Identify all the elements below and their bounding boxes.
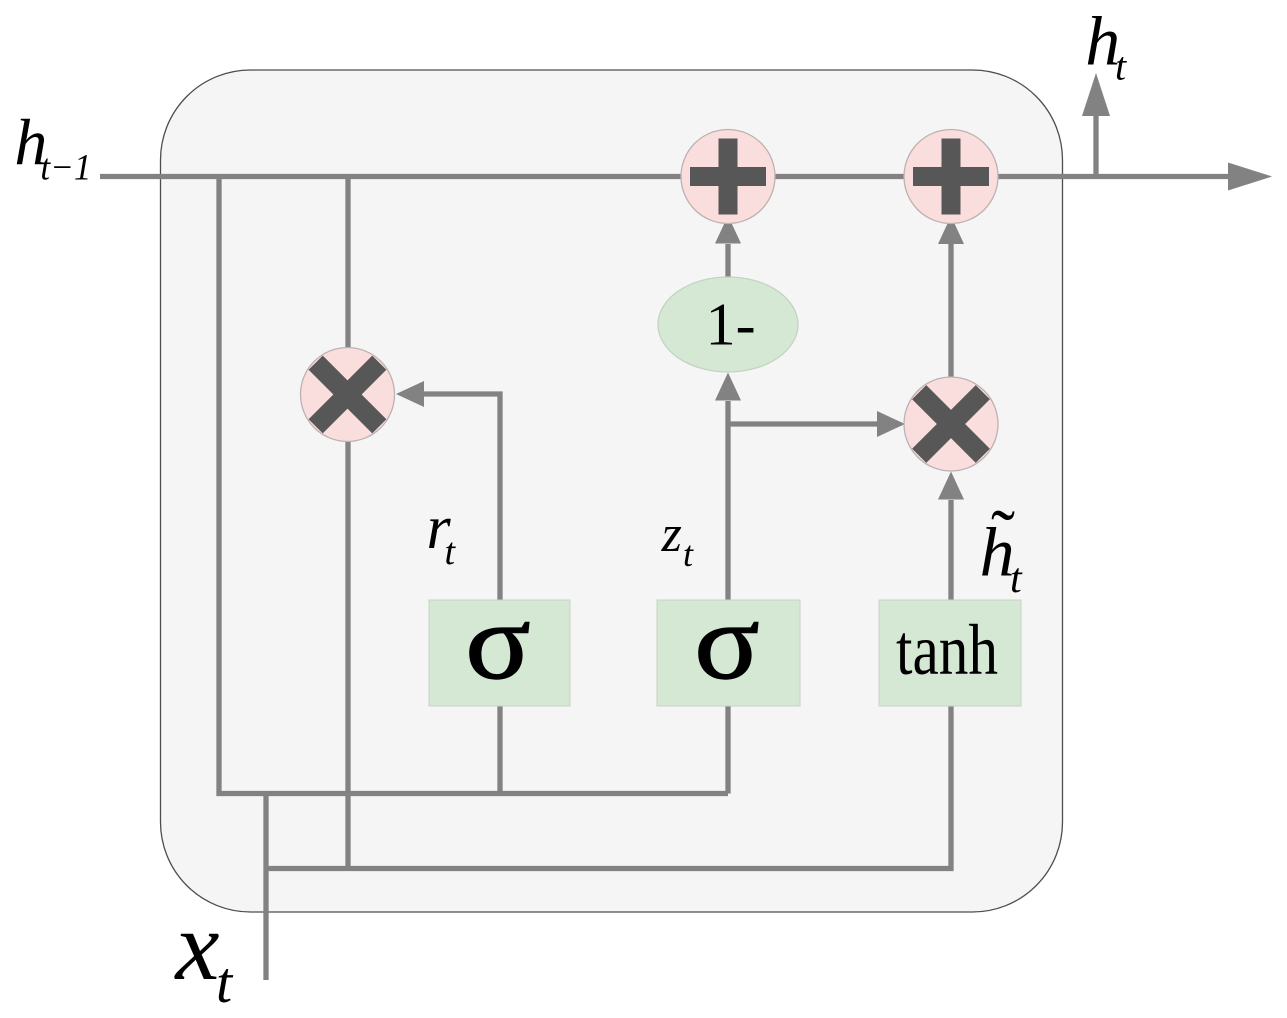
arrowhead h(t) up <box>1082 73 1110 116</box>
GRU cell body <box>161 70 1063 912</box>
times node 1 (multiply, left) <box>253 301 441 489</box>
arrowhead into plus2 <box>938 216 964 244</box>
wire z(t) branch to times2 <box>728 421 877 426</box>
arrowhead z branch into times2 <box>877 411 905 437</box>
sigma box 1 (reset gate) <box>429 582 570 706</box>
wire sigma2 bottom input <box>725 706 730 794</box>
arrowhead r(t) into times1 <box>396 381 424 407</box>
tanh box (candidate activation) <box>879 600 1021 706</box>
wire z(t) from sigma2 top to 1-minus ellipse <box>725 401 730 600</box>
svg-text:˜: ˜ <box>991 495 1015 575</box>
plus node 1 (add, left) <box>681 130 775 224</box>
svg-text:tanh: tanh <box>896 610 998 690</box>
arrowhead into plus1 <box>715 216 741 244</box>
plus node 2 (add, right) <box>904 130 998 224</box>
1-minus ellipse <box>658 277 798 372</box>
arrowhead z(t) into ellipse <box>715 373 741 401</box>
svg-text:σ: σ <box>465 582 530 702</box>
wire h(t-1) main horizontal line <box>100 174 1228 179</box>
wire times2 output to plus2 <box>948 244 953 377</box>
wire r(t) from sigma1 top to times1 <box>424 394 500 600</box>
svg-text:σ: σ <box>694 582 759 702</box>
sigma box 2 (update gate) <box>657 582 800 706</box>
wire tanh output to times2 <box>948 500 953 600</box>
svg-text:1-: 1- <box>706 292 756 358</box>
wire sigma1 bottom input <box>497 706 502 794</box>
times node 2 (multiply, right) <box>857 330 1045 518</box>
arrowhead main line right output <box>1228 163 1272 191</box>
wire bottom bus B to tanh <box>266 706 951 869</box>
wire h(t) vertical output <box>1093 116 1098 177</box>
wire left branch from h(t-1) down to bottom bus A <box>219 177 728 794</box>
wire ellipse output to plus1 <box>725 244 730 277</box>
wire through times1 down to bus B <box>345 177 350 869</box>
svg-text:ht: ht <box>1085 4 1127 89</box>
arrowhead into times2 bottom <box>938 472 964 500</box>
svg-text:ht−1: ht−1 <box>14 107 91 189</box>
wire x(t) input vertical <box>263 794 268 981</box>
svg-text:xt: xt <box>174 892 235 1015</box>
